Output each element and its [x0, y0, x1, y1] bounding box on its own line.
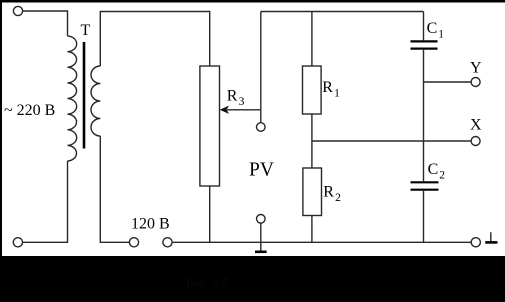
svg-text:2: 2: [439, 169, 445, 181]
svg-text:1: 1: [438, 29, 444, 41]
terminal 120V left: [129, 238, 138, 247]
terminal Y: [471, 78, 480, 87]
wire PV bottom terminal through bus to earth: [260, 223, 262, 251]
svg-text:R: R: [323, 184, 334, 201]
svg-text:120 В: 120 В: [131, 216, 170, 233]
svg-text:X: X: [470, 117, 482, 134]
wire wiper junction to top bus: [260, 12, 262, 110]
svg-text:R: R: [227, 88, 238, 105]
terminal X: [471, 137, 480, 146]
svg-text:R: R: [322, 79, 333, 96]
ground symbol stem at right: [490, 232, 492, 241]
wiper arrowhead: [220, 106, 229, 114]
wire top-right bus: [261, 11, 424, 13]
svg-text:C: C: [427, 20, 438, 37]
transformer core: [83, 42, 86, 149]
wire bus to R1 top: [311, 12, 313, 67]
capacitor C1: [411, 41, 438, 48]
terminal input top-left: [13, 6, 22, 15]
wire secondary top to R3 top (top-left bus): [100, 12, 209, 67]
terminal input bottom-left: [13, 238, 22, 247]
wire R2 bottom to ground bus: [311, 216, 313, 243]
svg-text:3: 3: [239, 96, 245, 108]
wire R1 bottom to R2 top: [311, 114, 313, 168]
transformer T primary winding: [68, 36, 77, 161]
resistor R2: [303, 168, 322, 216]
svg-text:1: 1: [334, 88, 340, 100]
transformer T secondary winding: [91, 66, 100, 136]
bottom black banner: [0, 256, 505, 302]
wire primary bottom to terminal: [23, 161, 68, 242]
resistor R1: [303, 66, 322, 114]
wire bottom ground bus: [172, 241, 471, 243]
wire C2 bottom to ground bus: [423, 191, 425, 243]
svg-text:T: T: [81, 22, 91, 39]
terminal PV top: [257, 123, 266, 132]
ground symbol bar at right: [485, 241, 497, 244]
wiper arrow wire of R3: [227, 109, 261, 111]
terminal 120V right: [163, 238, 172, 247]
border frame left bar: [0, 0, 2, 256]
wire C1 bottom to C2 top: [423, 50, 425, 182]
wire node X from R1-R2 junction: [312, 140, 471, 142]
svg-text:PV: PV: [249, 160, 274, 181]
wire node Y from C1-C2 junction: [424, 81, 472, 83]
wire secondary bottom to 120V terminal: [100, 136, 129, 242]
svg-text:Y: Y: [470, 59, 482, 76]
terminal PV bottom: [257, 215, 266, 224]
capacitor C2: [411, 182, 439, 189]
wire bus corner down to C1: [423, 12, 425, 41]
svg-text:C: C: [428, 161, 439, 178]
svg-text:~ 220 В: ~ 220 В: [4, 102, 55, 119]
terminal ground (earthed): [471, 238, 480, 247]
svg-text:2: 2: [335, 192, 341, 204]
wire from input terminal to primary top: [23, 11, 68, 36]
wire wiper junction down to PV terminal: [260, 110, 262, 123]
border frame top bar: [0, 0, 505, 3]
resistor R3 (rheostat body): [200, 66, 220, 186]
wire R3 bottom to ground bus: [209, 186, 211, 242]
earth bar under PV: [255, 251, 267, 254]
svg-text:Рис. 2.5: Рис. 2.5: [186, 275, 229, 290]
